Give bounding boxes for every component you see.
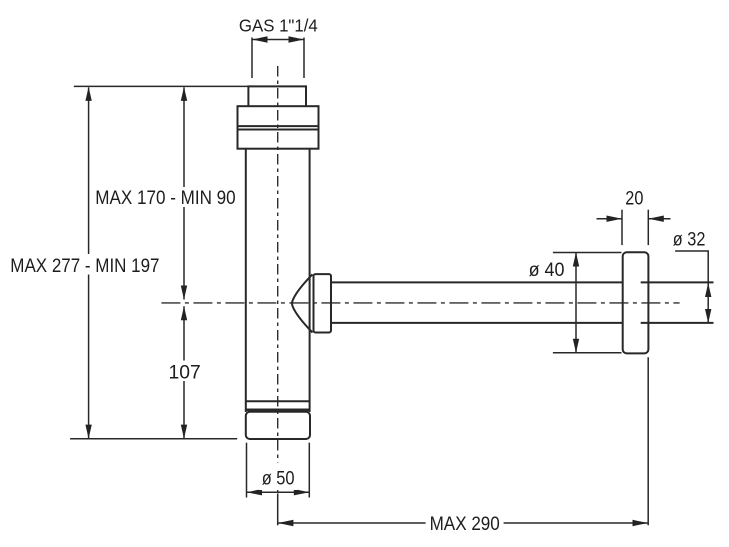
dim o32 arrow up	[705, 283, 711, 297]
dim MAX 290 arrow left	[278, 520, 294, 526]
dim o40 line	[575, 253, 577, 353]
dim MAX 277 arrow down	[85, 425, 91, 439]
horizontal centerline	[161, 302, 679, 304]
outlet pipe bottom	[331, 322, 623, 324]
dim GAS arrow left	[252, 36, 268, 42]
dim o50 line	[247, 491, 310, 493]
dim MAX 290 arrow right	[633, 520, 649, 526]
dim 107 arrow down	[181, 425, 187, 439]
nut joint line lower	[237, 129, 320, 131]
svg-text:ø 40: ø 40	[529, 260, 565, 281]
dim MAX 170 line	[183, 87, 185, 299]
dim MAX 170 arrow up	[181, 87, 187, 101]
outlet pipe extension bottom	[641, 322, 714, 324]
dim 20 line left	[597, 218, 623, 220]
dim GAS line	[252, 39, 304, 41]
outlet pipe extension top	[641, 281, 714, 283]
dim MAX 290 right extension	[647, 357, 649, 525]
dim o40 arrow up	[573, 253, 579, 267]
svg-text:GAS 1"1/4: GAS 1"1/4	[239, 15, 318, 35]
body joint line	[246, 400, 310, 402]
dim 20 arrow right	[648, 216, 664, 222]
dim MAX 170 arrow down	[181, 286, 187, 300]
dim 107 arrow up	[181, 306, 187, 320]
dim GAS extension left	[251, 38, 253, 79]
dim 20 line right	[648, 218, 670, 220]
trap body tube right edge	[309, 149, 311, 412]
svg-text:ø 50: ø 50	[262, 468, 295, 489]
trap body tube left edge	[245, 149, 247, 412]
dim o32 line	[707, 283, 709, 323]
outlet dome	[292, 274, 312, 332]
dim o40 extension top	[553, 252, 622, 254]
label o 50	[259, 463, 298, 491]
dim 107 line	[183, 306, 185, 438]
label MAX 170 - MIN 90	[92, 187, 239, 207]
label MAX 277 - MIN 197	[7, 254, 163, 275]
svg-text:107: 107	[169, 362, 201, 383]
svg-text:MAX 277 - MIN 197: MAX 277 - MIN 197	[10, 256, 159, 277]
cap top line	[246, 408, 310, 411]
inlet nut	[238, 106, 319, 149]
svg-text:MAX 170 - MIN 90: MAX 170 - MIN 90	[95, 188, 235, 209]
threaded inlet	[248, 86, 306, 106]
svg-text:MAX 290: MAX 290	[430, 514, 500, 535]
dim 20 extension right	[647, 210, 649, 245]
dim 20 arrow left	[607, 216, 623, 222]
svg-text:ø 32: ø 32	[673, 229, 706, 250]
dim o40 extension bottom	[553, 352, 622, 354]
dim o50 arrow left	[247, 489, 263, 495]
outlet pipe top	[331, 281, 623, 283]
dim o50 extension right	[308, 443, 310, 498]
dim GAS arrow right	[289, 36, 305, 42]
dim MAX 277 arrow up	[85, 87, 91, 101]
extension line top left	[74, 85, 248, 87]
label 107	[165, 361, 204, 382]
nut joint line upper	[237, 125, 320, 127]
wall flange	[623, 252, 649, 353]
dim MAX 277 line	[88, 87, 90, 438]
dim o50 arrow right	[294, 489, 310, 495]
extension line bottom left	[70, 438, 237, 440]
outlet nut	[314, 274, 332, 332]
bottom cap	[246, 412, 310, 439]
svg-text:20: 20	[625, 189, 643, 210]
dim o32 leader	[675, 251, 708, 282]
dim 20 extension left	[621, 210, 623, 245]
label MAX 290	[426, 512, 504, 532]
vertical centerline	[277, 66, 279, 492]
dim o32 arrow down	[705, 309, 711, 323]
dim o40 arrow down	[573, 339, 579, 353]
dim o50 extension left	[246, 443, 248, 498]
dim MAX 290 line	[278, 522, 648, 524]
dim GAS extension right	[303, 38, 305, 79]
